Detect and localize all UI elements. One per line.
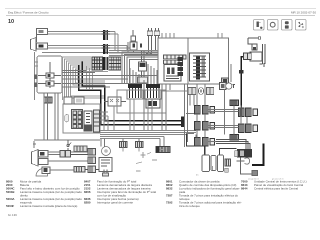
svg-text:7287: 7287	[166, 193, 173, 197]
black comb connector group B	[145, 84, 161, 99]
ignition switch 8601 loop	[248, 37, 261, 50]
black comb connector group A	[127, 84, 143, 99]
right cluster left col connectors	[195, 106, 215, 147]
battery 2000	[202, 155, 224, 172]
tiny box top B	[154, 28, 159, 51]
relay cluster row 2	[164, 60, 183, 64]
wires above comb groups	[130, 64, 157, 84]
wires headlight to connector X1	[42, 32, 158, 54]
fuse F2 top	[130, 30, 137, 53]
legend col2 codes	[84, 179, 91, 204]
left big lamp box 2151	[37, 56, 62, 93]
comb drop wires	[130, 99, 152, 131]
switch 8280b lower left	[67, 140, 87, 152]
comb connector right of X1	[109, 57, 121, 70]
svg-text:5004F: 5004F	[6, 204, 14, 208]
icon box 4 (fan)	[296, 20, 307, 31]
relay small 8632	[104, 97, 126, 106]
box divider	[187, 38, 189, 84]
legend col2 text	[97, 179, 156, 204]
big central box 7000	[158, 38, 229, 84]
tiny mark far left	[33, 141, 36, 148]
dark dash right of F2	[140, 44, 142, 48]
wires rear lamps right	[48, 152, 88, 170]
fuse strip box	[190, 53, 210, 81]
legend col1 text	[20, 179, 82, 208]
staircase wire bundle	[63, 57, 109, 100]
comb connector lower	[230, 135, 239, 141]
icon box 3 (cab)	[282, 20, 293, 31]
small marks mid bottom	[136, 147, 163, 171]
connector small box right of bundle	[156, 147, 170, 153]
relay dark cell column	[178, 57, 184, 76]
fuse cells dark	[196, 57, 200, 80]
comb connector left of X1	[92, 57, 103, 70]
wires right cluster	[197, 64, 247, 142]
connector mid low A	[60, 151, 88, 158]
thick bus line inner	[82, 62, 184, 121]
svg-text:Central elétrica para faróis C: Central elétrica para faróis Central	[254, 186, 298, 190]
thick vertical right	[252, 144, 264, 166]
right cluster mid col connectors	[239, 108, 258, 133]
connector bar X1	[103, 30, 105, 40]
connector at box bottom right	[222, 78, 229, 85]
connector stack right	[88, 149, 96, 173]
comb connector on ignition drop	[230, 100, 239, 106]
legend col4 text	[254, 179, 307, 190]
svg-text:Lanterna traseira montada (pla: Lanterna traseira montada (placa de lice…	[20, 204, 77, 208]
legend col3 text	[179, 179, 242, 208]
box C sub box cells	[72, 110, 83, 129]
connector mid low B	[74, 167, 99, 173]
svg-text:5004A: 5004A	[6, 197, 15, 201]
wires top mid connectors	[109, 51, 158, 56]
nested corner wires x120	[122, 52, 158, 84]
dark component mid x141	[138, 50, 148, 83]
svg-text:Luz-piloto indicadora de ilumi: Luz-piloto indicadora de iluminação gera…	[179, 186, 240, 190]
svg-text:8280: 8280	[84, 200, 91, 204]
flasher cluster 8602	[99, 147, 112, 177]
connectors on lamp box left edge	[34, 75, 38, 88]
svg-text:8206: 8206	[84, 190, 91, 194]
grommet row right of combs	[162, 88, 214, 95]
rear lamp 5004A	[36, 167, 50, 176]
headlight 5004C body	[31, 29, 48, 52]
connector strip right of box C	[94, 110, 100, 132]
components above box C	[64, 97, 84, 104]
ignition switch 8601 body	[250, 44, 265, 67]
svg-text:8632: 8632	[166, 186, 173, 190]
box C column	[84, 111, 92, 131]
legend col3 codes	[166, 179, 173, 204]
outline box under combs	[117, 90, 166, 113]
comb hang B	[136, 142, 144, 152]
icon box 2 (wheel)	[268, 20, 279, 31]
svg-text:8644: 8644	[241, 186, 248, 190]
header rule	[6, 15, 315, 17]
bulb symbols inside	[35, 52, 62, 100]
long verticals mid	[128, 42, 170, 130]
thick wire from ignition	[241, 57, 250, 109]
bundle verticals mid	[87, 66, 93, 89]
svg-text:7292: 7292	[166, 200, 173, 204]
dark component in box	[146, 99, 160, 108]
headlight 5004C filaments	[39, 30, 44, 33]
svg-text:trica do reboque: trica do reboque	[179, 204, 200, 208]
bundle to trailer socket	[216, 140, 250, 150]
wires entering big box top	[162, 33, 222, 38]
hatched connector below lamp box	[44, 97, 52, 103]
legend col1 codes	[6, 179, 15, 208]
header top rule	[5, 8, 316, 10]
svg-text:5001B: 5001B	[6, 190, 15, 194]
horn 8236	[226, 83, 235, 89]
mid relay box C	[63, 104, 100, 133]
drops from bundle	[101, 84, 196, 147]
connector dashes on top wires	[146, 52, 152, 56]
relay sub box	[164, 65, 181, 82]
thick bus end bar	[181, 117, 184, 128]
battery feed wire	[187, 134, 237, 155]
horizontal wire bundle lower	[100, 106, 196, 139]
rear lamp 5001B	[32, 150, 49, 167]
starter 8000	[237, 158, 258, 176]
relay cluster row 1	[164, 55, 187, 59]
svg-text:Interruptor geral de corrente: Interruptor geral de corrente	[97, 200, 133, 204]
thick bus line outer	[79, 65, 184, 125]
tiny box top A	[147, 28, 152, 52]
svg-text:bn 136: bn 136	[8, 213, 17, 217]
small comb right of battery	[225, 159, 231, 166]
grommet on ignition wire	[239, 70, 244, 74]
connector on ignition wire	[244, 53, 252, 60]
switch 8280 small	[220, 83, 227, 90]
svg-text:Lanterna traseira completa (lu: Lanterna traseira completa (luz de posiç…	[20, 190, 82, 194]
box C oval	[65, 115, 69, 123]
comb hang A	[120, 142, 128, 152]
icon box 1 (driver)	[254, 20, 265, 31]
cross wires mid-left	[34, 71, 158, 141]
small box below	[225, 168, 229, 172]
trailer socket 7287 dark	[235, 149, 253, 158]
legend col4 codes	[241, 179, 248, 190]
